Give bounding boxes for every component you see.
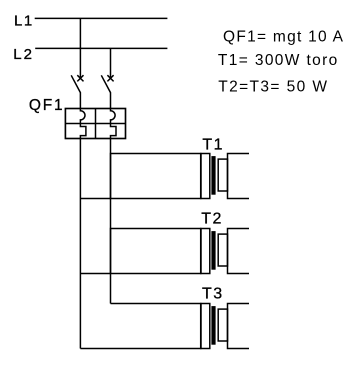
svg-text:T2: T2 (201, 211, 223, 228)
svg-text:T3: T3 (202, 286, 224, 303)
svg-text:L2: L2 (13, 46, 34, 63)
svg-text:QF1: QF1 (29, 97, 65, 114)
svg-text:T1: T1 (202, 136, 224, 153)
svg-text:L1: L1 (14, 13, 34, 30)
svg-text:QF1= mgt 10 A: QF1= mgt 10 A (223, 28, 344, 45)
svg-text:T1= 300W toro: T1= 300W toro (218, 52, 337, 69)
